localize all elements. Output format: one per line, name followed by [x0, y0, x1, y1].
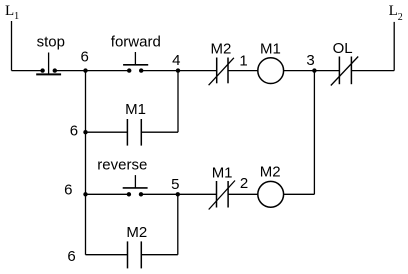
- svg-text:5: 5: [171, 176, 179, 193]
- svg-text:M2: M2: [211, 40, 232, 57]
- svg-text:6: 6: [81, 48, 89, 65]
- svg-text:forward: forward: [111, 33, 161, 50]
- svg-text:6: 6: [70, 122, 78, 139]
- svg-text:6: 6: [67, 248, 75, 265]
- svg-text:stop: stop: [37, 34, 65, 51]
- svg-text:1: 1: [239, 53, 247, 70]
- svg-text:reverse: reverse: [97, 157, 147, 174]
- svg-text:M1: M1: [212, 164, 233, 181]
- svg-text:M2: M2: [260, 164, 281, 181]
- svg-text:2: 2: [240, 175, 248, 192]
- svg-text:6: 6: [64, 182, 72, 199]
- svg-text:4: 4: [172, 52, 180, 69]
- svg-text:M2: M2: [126, 224, 147, 241]
- svg-text:OL: OL: [333, 40, 353, 57]
- svg-text:3: 3: [306, 52, 314, 69]
- svg-text:M1: M1: [125, 101, 146, 118]
- svg-text:M1: M1: [260, 40, 281, 57]
